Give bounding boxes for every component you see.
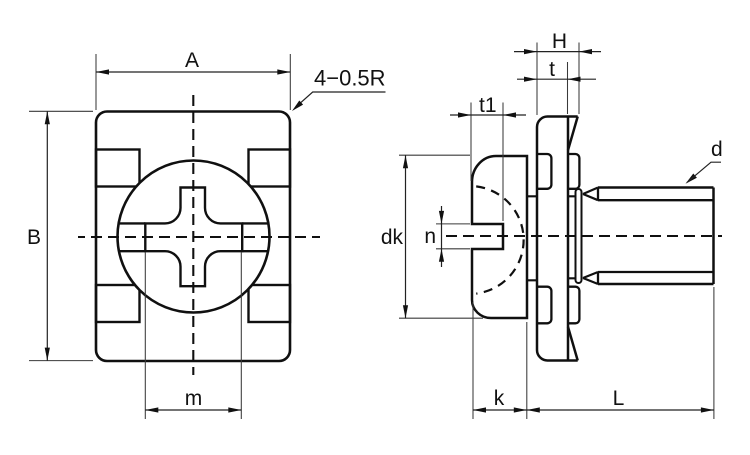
washer tab rectangle top-left	[96, 150, 140, 187]
thread root top	[598, 199, 714, 201]
k arrowheads	[473, 407, 486, 412]
svg-text:4−0.5R: 4−0.5R	[314, 66, 386, 91]
B extension lines	[29, 111, 93, 360]
m extension lines	[145, 252, 241, 419]
svg-text:m: m	[185, 387, 203, 410]
screw head profile	[472, 156, 527, 318]
t1 extension lines	[471, 103, 503, 222]
slot chord left-bottom	[119, 250, 145, 252]
dk arrowheads	[403, 155, 408, 168]
L extension line	[713, 287, 715, 419]
washer top edge	[548, 115, 578, 118]
m arrowheads	[145, 407, 158, 412]
square washer plate outline	[96, 112, 290, 362]
washer bottom edge	[548, 359, 578, 362]
L dimension line	[527, 409, 714, 411]
k extension lines	[473, 302, 527, 419]
washer left face with corners	[537, 117, 548, 361]
svg-text:dk: dk	[381, 226, 404, 249]
slot chord right-bottom	[242, 250, 268, 252]
svg-text:d: d	[711, 138, 723, 161]
svg-text:A: A	[185, 49, 199, 72]
hidden recess dashed arc	[476, 186, 523, 293]
washer top bent-corner diagonal	[568, 117, 578, 151]
svg-text:L: L	[613, 387, 625, 410]
thread start edges	[597, 188, 599, 285]
t extension line	[567, 62, 569, 114]
svg-text:t: t	[549, 58, 555, 81]
n arrowheads	[439, 211, 444, 224]
leader d	[687, 162, 721, 182]
t1 dimension line with tails	[450, 114, 526, 116]
k dimension line	[473, 409, 527, 411]
A dimension line	[96, 71, 290, 73]
t arrowheads	[524, 77, 537, 82]
n extension lines	[436, 224, 470, 249]
thread major diameter bottom	[598, 283, 714, 286]
A arrowheads	[96, 69, 109, 74]
washer tab side top-right	[568, 154, 579, 189]
svg-text:H: H	[552, 30, 567, 53]
H arrowheads (outside, pointing in)	[524, 49, 537, 54]
t1 arrowheads	[458, 112, 471, 117]
leader 4-0.5R	[297, 92, 386, 106]
washer tab rectangle bottom-left	[96, 285, 140, 322]
washer hole edge top	[527, 195, 576, 197]
slot chord left-top	[119, 222, 146, 224]
screw head circle	[118, 161, 270, 313]
H dimension line with tails	[514, 51, 601, 53]
A extension lines	[96, 54, 290, 110]
m dimension line	[145, 409, 241, 411]
thread end edge	[712, 188, 715, 285]
centerline vertical (front view)	[192, 95, 194, 375]
H extension lines	[537, 43, 579, 116]
thread runout top	[583, 188, 598, 201]
washer hole edge bottom	[527, 278, 576, 280]
neck capsule	[576, 189, 582, 283]
svg-text:k: k	[494, 387, 505, 410]
thread major diameter top	[598, 186, 714, 189]
washer tab rectangle top-right	[249, 150, 291, 187]
centerline horizontal (front view)	[78, 236, 320, 238]
washer tab side top-left	[537, 154, 551, 189]
phillips cross recess outline	[145, 188, 242, 287]
slot chord right-top	[242, 222, 268, 224]
dk dimension line	[405, 155, 407, 318]
dk extension lines	[399, 155, 483, 318]
svg-text:B: B	[27, 226, 41, 249]
B arrowheads	[45, 111, 50, 124]
washer tab side bottom-right	[568, 287, 579, 324]
svg-text:n: n	[424, 225, 436, 248]
B dimension line	[46, 111, 48, 360]
thread runout bottom	[583, 272, 598, 284]
centerline horizontal (side view)	[446, 235, 722, 237]
L arrowheads	[527, 407, 540, 412]
washer rear face line	[567, 117, 570, 361]
thread root bottom	[598, 271, 714, 273]
n dimension line with tails	[441, 206, 443, 267]
washer tab rectangle bottom-right	[249, 285, 291, 322]
washer bottom bent-corner diagonal	[568, 327, 578, 361]
svg-text:t1: t1	[479, 94, 497, 117]
washer tab side bottom-left	[537, 287, 551, 324]
d leader arrowhead	[686, 174, 697, 184]
t dimension line with tails	[517, 78, 596, 80]
